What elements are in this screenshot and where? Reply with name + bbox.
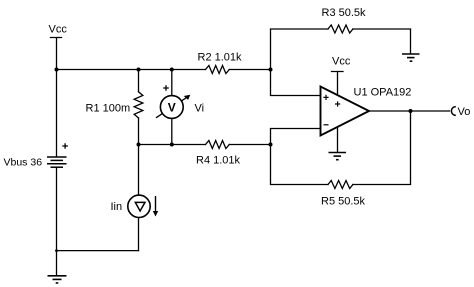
svg-text:R2 1.01k: R2 1.01k [198, 52, 243, 64]
svg-text:R3 50.5k: R3 50.5k [322, 7, 367, 19]
svg-text:Iin: Iin [111, 201, 123, 213]
svg-text:Vo: Vo [458, 106, 471, 118]
svg-text:R4 1.01k: R4 1.01k [196, 155, 241, 167]
svg-text:R5 50.5k: R5 50.5k [321, 196, 366, 208]
svg-text:U1 OPA192: U1 OPA192 [354, 87, 412, 99]
svg-text:Vcc: Vcc [49, 24, 68, 36]
svg-text:Vi: Vi [195, 103, 205, 115]
svg-text:Vcc: Vcc [332, 56, 351, 68]
svg-text:Vbus 36: Vbus 36 [4, 157, 43, 169]
svg-text:R1 100m: R1 100m [86, 103, 131, 115]
svg-text:V: V [168, 100, 176, 114]
